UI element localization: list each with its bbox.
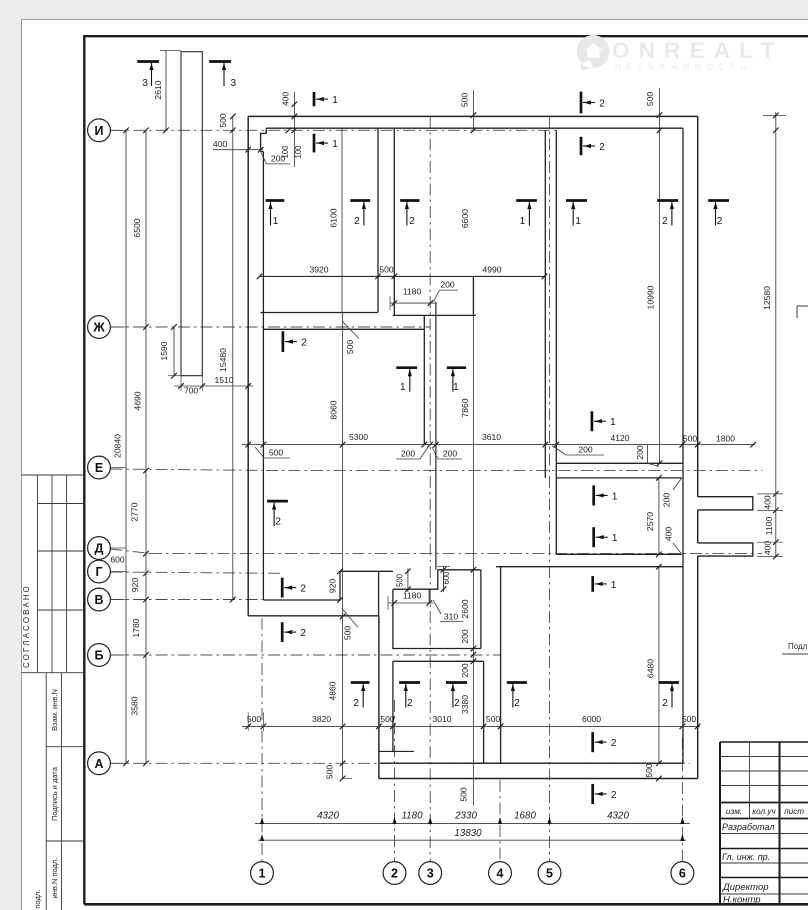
wall axis5 right [555, 130, 557, 554]
svg-text:НЕДВИЖИМОСТЬ: НЕДВИЖИМОСТЬ [615, 63, 751, 72]
wall bottom rooms top [496, 566, 683, 568]
svg-text:1180: 1180 [403, 591, 422, 601]
svg-text:200: 200 [578, 445, 593, 455]
svg-text:2: 2 [301, 337, 307, 348]
svg-text:1: 1 [612, 533, 618, 544]
svg-text:4990: 4990 [482, 265, 501, 275]
approval stamp table [22, 475, 85, 673]
wall mid room top [393, 314, 476, 316]
svg-text:1590: 1590 [159, 341, 169, 360]
dim 400 top [281, 92, 298, 167]
svg-text:6600: 6600 [460, 209, 470, 228]
svg-text:4860: 4860 [328, 681, 338, 700]
wall band y648 [393, 648, 481, 650]
svg-text:изм.: изм. [726, 807, 742, 816]
grey left margin strip [0, 18, 21, 910]
wall room2 top [263, 328, 423, 330]
axis stub lines left [111, 130, 127, 763]
axis circle Г [88, 560, 111, 583]
wall inner right [682, 128, 684, 763]
dim 4120 [610, 433, 629, 443]
svg-text:4320: 4320 [317, 811, 339, 822]
section marker 1 EDroom b [594, 527, 618, 547]
section marker 1 r420 [592, 411, 616, 431]
section marker 2 r200 a [350, 201, 370, 228]
svg-text:310: 310 [444, 612, 459, 622]
wall outer bottom [379, 778, 698, 780]
section marker 2 room2 [283, 331, 307, 352]
dim 1180 lower [388, 591, 433, 611]
svg-text:3380: 3380 [460, 695, 470, 714]
svg-text:200: 200 [271, 154, 286, 164]
dim 500 x342 bottom [325, 765, 335, 780]
text СОГЛАСОВАНО [22, 586, 31, 668]
wall 310 stub [428, 589, 430, 603]
svg-text:1: 1 [611, 580, 617, 591]
callout 310 [433, 600, 463, 622]
svg-text:1100: 1100 [764, 517, 774, 536]
section marker 1 r367 b [447, 368, 466, 394]
section marker 1 bigroom [593, 576, 617, 592]
side stamp boxes [46, 673, 84, 910]
dim 7860 [460, 398, 470, 417]
section marker 2 bigroom low [593, 732, 617, 752]
text инв.N подл. [50, 858, 59, 899]
svg-text:2: 2 [514, 698, 520, 709]
svg-text:200: 200 [460, 629, 470, 644]
dim 2770 [130, 502, 140, 521]
svg-text:И: И [95, 124, 104, 138]
svg-text:1: 1 [610, 417, 616, 428]
text Гл. инж. пр. [722, 852, 770, 862]
wall room1 bottom band bottom [261, 312, 378, 314]
dim 15480 [218, 116, 236, 602]
svg-text:500: 500 [345, 340, 355, 355]
callout 200 topleft [261, 152, 290, 164]
callout 500 room2 [342, 321, 359, 355]
svg-text:2: 2 [717, 216, 723, 227]
wall outer step bottom-left [248, 615, 379, 617]
wall room1 right x378 [377, 128, 379, 312]
svg-text:3580: 3580 [130, 696, 140, 715]
svg-text:Г: Г [95, 565, 102, 579]
svg-text:Разработал: Разработал [722, 822, 774, 832]
wall band y661 [393, 660, 484, 662]
svg-text:2: 2 [275, 517, 281, 528]
svg-text:1: 1 [273, 216, 279, 227]
svg-text:400: 400 [213, 139, 228, 149]
axis circle 2 [383, 862, 406, 885]
svg-text:400: 400 [281, 92, 291, 107]
svg-text:4: 4 [497, 867, 504, 881]
svg-text:500: 500 [343, 626, 353, 641]
svg-text:2600: 2600 [460, 599, 470, 618]
wall x473 piece [472, 276, 474, 315]
svg-text:В: В [94, 593, 103, 607]
dim 500 x473 [459, 90, 476, 133]
wall x394 upper [393, 128, 395, 315]
svg-text:Взам. инв.N: Взам. инв.N [50, 689, 59, 731]
dim 200 below b [432, 447, 462, 459]
dim 920 left [130, 578, 140, 593]
section marker 2 r200 b [400, 201, 419, 228]
dim 600 small [437, 566, 451, 592]
wall small room top [438, 569, 481, 571]
svg-text:2330: 2330 [454, 811, 477, 822]
svg-text:1680: 1680 [514, 811, 536, 822]
wall outer right lower [697, 556, 699, 778]
svg-text:1780: 1780 [131, 618, 141, 637]
svg-text:2: 2 [662, 216, 668, 227]
dim 1680 [514, 811, 536, 822]
svg-text:2570: 2570 [645, 512, 655, 531]
dim 6500 [132, 218, 142, 237]
wall small room left [392, 589, 394, 649]
svg-text:4690: 4690 [133, 391, 143, 410]
dim chain bottom rooms [242, 713, 701, 732]
section marker 2 r682 c [507, 683, 527, 710]
svg-text:2: 2 [353, 698, 359, 709]
svg-text:2: 2 [409, 216, 415, 227]
svg-text:6100: 6100 [329, 208, 339, 227]
wall small room right [480, 570, 482, 649]
dim 3610 [482, 432, 501, 442]
axis Д line [111, 549, 763, 554]
dim 500 below left [255, 447, 290, 458]
dim 500 ax6 [683, 434, 698, 444]
section marker 2 top b [581, 137, 605, 155]
svg-text:2: 2 [454, 698, 460, 709]
wall top-right room bottom [556, 462, 683, 464]
axis Е line [111, 469, 763, 471]
svg-text:5300: 5300 [349, 432, 368, 442]
axis Г line [111, 572, 281, 573]
svg-text:Директор: Директор [722, 882, 769, 893]
callout 500 step [342, 608, 358, 640]
svg-text:200: 200 [661, 493, 671, 508]
svg-text:500: 500 [644, 763, 654, 778]
axis А line [111, 762, 691, 764]
svg-text:8060: 8060 [329, 400, 339, 419]
svg-text:Гл. инж. пр.: Гл. инж. пр. [722, 852, 770, 862]
svg-text:1: 1 [259, 867, 266, 881]
wall outer left notch vertical [378, 617, 380, 779]
svg-text:ONREALT: ONREALT [612, 38, 783, 63]
svg-text:10990: 10990 [646, 285, 656, 309]
svg-text:2: 2 [391, 867, 398, 881]
axis 5 line [549, 116, 551, 862]
svg-text:1: 1 [400, 382, 406, 393]
svg-text:500: 500 [459, 787, 469, 802]
text Н.контр [723, 895, 761, 906]
svg-text:920: 920 [130, 578, 140, 593]
dim 2610 [153, 50, 181, 133]
wall outer left [247, 116, 249, 615]
section marker 3 right [209, 62, 236, 90]
svg-text:Д: Д [95, 542, 104, 556]
svg-text:700: 700 [184, 386, 199, 396]
wall outer right mid [697, 510, 699, 543]
svg-text:3010: 3010 [432, 714, 451, 724]
axis circle Б [88, 644, 111, 667]
title block grid [720, 742, 808, 904]
wall inner step B [263, 599, 340, 601]
axis 2 line [394, 700, 396, 862]
wall outer right upper [697, 116, 699, 496]
dim chain bottom 1 [255, 817, 690, 830]
dim 1590 [159, 324, 181, 378]
axis circle 6 [671, 862, 694, 885]
axis 1 line [261, 618, 263, 862]
dim 2330 [454, 811, 477, 822]
wall inner top [266, 127, 683, 129]
dim 920 step [328, 569, 343, 603]
svg-text:500: 500 [325, 765, 335, 780]
svg-text:1: 1 [520, 216, 526, 227]
svg-text:Е: Е [95, 461, 103, 475]
svg-text:500: 500 [395, 573, 404, 587]
dim 4320 a [317, 811, 339, 822]
svg-text:3: 3 [231, 78, 237, 89]
section marker 2 r200 c [657, 201, 678, 228]
svg-text:500: 500 [247, 714, 262, 724]
svg-text:600: 600 [110, 555, 125, 565]
svg-text:500: 500 [269, 448, 284, 458]
svg-text:2: 2 [599, 98, 605, 109]
axis В line [111, 599, 264, 601]
wall top-left notch [261, 128, 267, 151]
dim 200 v1 [460, 629, 470, 644]
svg-text:2: 2 [611, 738, 617, 749]
section marker 2 roomB2 [282, 622, 306, 642]
text Взам. инв.N [50, 689, 59, 731]
section marker 2 r682 d [659, 683, 679, 710]
dim 200 below a [396, 447, 428, 459]
dim chain bottom 2 [258, 834, 686, 841]
section marker 2 r682 bc [446, 683, 467, 710]
callout 400 ED [664, 527, 682, 555]
dim chain left [143, 128, 149, 767]
wall lower-center left [392, 661, 394, 751]
dim 2570 [645, 475, 662, 557]
svg-text:500: 500 [486, 714, 501, 724]
callout 200 below 4120 [552, 445, 604, 456]
section marker 2 roomG [282, 578, 306, 598]
axis circle 1 [251, 862, 274, 885]
dim 3380 [460, 695, 470, 714]
wall step vertical x378 [378, 571, 380, 616]
svg-text:4120: 4120 [610, 433, 629, 443]
svg-text:400: 400 [664, 527, 674, 542]
svg-text:5: 5 [546, 867, 553, 881]
finger pier top right [698, 497, 753, 510]
svg-text:Н.контр: Н.контр [723, 895, 761, 906]
svg-text:6000: 6000 [582, 714, 601, 724]
wall bottom inner [380, 762, 683, 764]
axis circle А [88, 752, 111, 775]
section marker 1 EDroom a [594, 485, 618, 505]
section marker 3 left [137, 62, 159, 90]
wall big room left [500, 567, 502, 764]
svg-text:200: 200 [440, 280, 455, 290]
dim 500 bottomright [644, 763, 662, 781]
dim 5300 [349, 432, 368, 442]
svg-text:лист: лист [783, 807, 804, 816]
finger pier bottom right [698, 543, 753, 556]
svg-text:2: 2 [662, 698, 668, 709]
dim 4860 [328, 681, 338, 700]
dim 4690 [133, 391, 143, 410]
svg-text:Б: Б [95, 649, 104, 663]
right edge mark [797, 306, 808, 318]
wall room1 bottom band top [260, 275, 546, 277]
text Разработал [722, 822, 774, 832]
callout 200 ED [661, 478, 682, 509]
svg-text:Подл: Подл [788, 642, 808, 651]
svg-text:6480: 6480 [646, 659, 656, 678]
svg-text:200: 200 [635, 445, 645, 460]
svg-text:500: 500 [459, 93, 469, 108]
svg-text:2: 2 [407, 698, 413, 709]
wall 200 pair right [435, 302, 437, 570]
wall lower-center right [483, 661, 485, 763]
wall axis5 left [544, 130, 546, 478]
svg-text:1: 1 [453, 382, 459, 393]
callout 200 x647 [635, 445, 659, 467]
axis circle Ж [88, 316, 111, 339]
svg-text:А: А [94, 757, 103, 771]
section marker 2 below [593, 784, 617, 804]
axis circle И [88, 119, 111, 142]
svg-text:2: 2 [611, 790, 617, 801]
dim line x473 lower [471, 315, 477, 726]
dim 500 c3 [486, 714, 501, 724]
dim 500 c1 [243, 714, 265, 725]
callout 200 x436 [434, 280, 459, 302]
axis Ж line [111, 326, 431, 328]
axis circle 5 [538, 862, 561, 885]
dim 3580 [130, 696, 140, 715]
dim chain 3920 500 4990 [257, 265, 548, 280]
svg-text:1: 1 [332, 139, 338, 150]
svg-text:2610: 2610 [153, 80, 163, 99]
section marker 1 top [314, 92, 338, 106]
svg-text:кол.уч: кол.уч [752, 807, 776, 816]
dim 500 c2 [380, 714, 395, 724]
dim 500 small [395, 568, 410, 592]
svg-text:еN подл.: еN подл. [33, 890, 42, 910]
axis circle 4 [489, 862, 512, 885]
watermark logo pin [577, 35, 610, 71]
dim 13830 [454, 828, 482, 839]
section marker 1 upper [314, 134, 338, 153]
svg-text:200: 200 [460, 663, 470, 678]
svg-text:4320: 4320 [607, 811, 629, 822]
svg-text:600: 600 [442, 571, 451, 585]
svg-text:920: 920 [328, 579, 338, 594]
svg-text:6500: 6500 [132, 218, 142, 237]
svg-text:Подпись и дата: Подпись и дата [50, 766, 59, 821]
dim 6100 [329, 128, 343, 312]
svg-text:500: 500 [682, 714, 697, 724]
dim 100 100 notch [281, 128, 303, 159]
dim 6000 [582, 714, 601, 724]
svg-text:500: 500 [645, 92, 655, 107]
wall small room left step [393, 570, 438, 589]
svg-text:инв.N подл.: инв.N подл. [50, 858, 59, 899]
dim line x473 extension [459, 726, 481, 805]
svg-text:1: 1 [332, 95, 338, 106]
dim line 20840 [113, 128, 129, 767]
svg-text:15480: 15480 [218, 348, 228, 372]
svg-text:100: 100 [294, 145, 303, 159]
text Подл right edge [782, 642, 808, 654]
section marker 2 r682 a [351, 683, 370, 710]
svg-text:2: 2 [300, 583, 306, 594]
dim 700 1510 [174, 375, 253, 396]
svg-text:500: 500 [683, 434, 698, 444]
svg-text:3: 3 [427, 867, 434, 881]
text Директор [722, 882, 769, 893]
dim 1800 [716, 434, 735, 444]
grey top margin strip [0, 0, 808, 20]
dim 12580 [762, 112, 786, 557]
svg-text:3920: 3920 [309, 265, 328, 275]
pylon rectangle [181, 52, 202, 376]
axis 6 line [681, 737, 683, 862]
dim 200 v2 [460, 663, 470, 678]
axis circle Е [88, 456, 111, 479]
section marker 2 r500 [267, 501, 288, 527]
dim 400 left [213, 139, 264, 153]
wall lower-center corner [379, 750, 414, 752]
dim 6480 [646, 564, 662, 766]
svg-text:С О Г Л А С О В А Н О: С О Г Л А С О В А Н О [22, 586, 31, 668]
svg-text:3610: 3610 [482, 432, 501, 442]
dim 2600 [460, 599, 470, 618]
dim 3820 [312, 714, 331, 724]
section marker 2 r682 b [399, 683, 420, 710]
section marker 1 r200 b [516, 201, 537, 228]
section marker 2 r200 d [708, 201, 729, 228]
svg-text:1800: 1800 [716, 434, 735, 444]
wall inner left [261, 152, 264, 601]
dim 600 left [110, 555, 125, 565]
svg-text:1: 1 [575, 216, 581, 227]
svg-text:6: 6 [679, 867, 686, 881]
svg-text:3820: 3820 [312, 714, 331, 724]
svg-text:1: 1 [612, 491, 618, 502]
section marker 1 r200 a [266, 201, 285, 228]
section marker 1 r367 a [396, 368, 417, 394]
svg-text:13830: 13830 [454, 828, 482, 839]
svg-text:400: 400 [763, 541, 773, 556]
wall step 920 vertical [339, 571, 341, 600]
svg-text:2: 2 [599, 142, 605, 153]
dim 6600 [460, 130, 470, 276]
wall ED room top [556, 477, 682, 479]
axis circle 3 [419, 862, 442, 885]
svg-text:200: 200 [401, 449, 416, 459]
svg-text:3: 3 [142, 78, 148, 89]
svg-text:200: 200 [443, 449, 458, 459]
svg-text:2770: 2770 [130, 502, 140, 521]
dim 10990 [646, 130, 663, 466]
dim chain 5300 3610 4120 [242, 442, 756, 448]
svg-text:7860: 7860 [460, 398, 470, 417]
text Подпись и дата [50, 766, 59, 821]
section marker 2 top a [581, 92, 605, 114]
